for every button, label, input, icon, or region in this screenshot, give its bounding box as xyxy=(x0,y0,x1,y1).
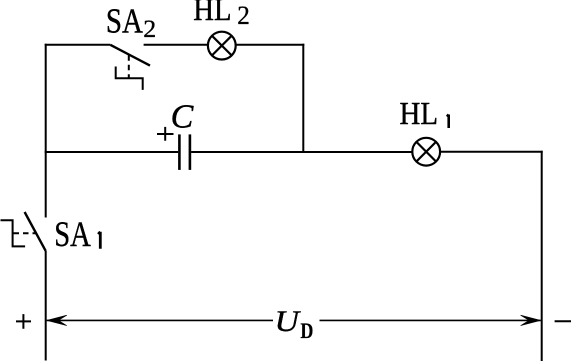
switch SA2 actuator bracket xyxy=(116,67,143,90)
svg-text:U: U xyxy=(275,305,302,338)
lamp HL1 cross xyxy=(416,142,436,162)
wire left vertical upper segment xyxy=(45,44,47,218)
dimension line right segment xyxy=(320,319,541,321)
capacitor C right plate xyxy=(189,134,192,170)
svg-text:2: 2 xyxy=(143,14,156,43)
wire SA2 right contact to HL2 xyxy=(144,44,208,46)
lamp HL2 cross xyxy=(212,36,232,56)
capacitor polarity plus sign xyxy=(157,127,174,141)
wire right vertical xyxy=(541,151,543,361)
wire middle rail left of capacitor xyxy=(45,151,179,153)
switch SA1 dashed link xyxy=(14,232,36,234)
wire vertical drop to middle rail xyxy=(302,44,304,152)
dimension line left segment xyxy=(47,319,273,321)
wire middle rail right of capacitor xyxy=(191,151,412,153)
plus terminal symbol xyxy=(16,314,31,329)
svg-text:HL: HL xyxy=(400,95,439,131)
switch SA2 dashed link xyxy=(128,55,130,78)
capacitor C left plate xyxy=(178,134,181,170)
wire left vertical lower segment xyxy=(45,251,47,361)
label SA1 subscript 1 xyxy=(98,232,100,249)
arrowhead right xyxy=(521,315,541,325)
switch SA2 blade xyxy=(110,45,150,66)
wire HL2 to top-right corner xyxy=(236,44,305,46)
svg-text:D: D xyxy=(300,318,313,343)
arrowhead left xyxy=(47,315,67,325)
lamp HL1 circle xyxy=(412,138,440,166)
svg-text:C: C xyxy=(171,98,194,135)
wire HL1 to right corner xyxy=(440,151,543,153)
svg-text:SA: SA xyxy=(54,214,91,254)
svg-text:SA: SA xyxy=(106,2,144,41)
lamp HL2 circle xyxy=(208,32,236,60)
switch SA1 actuator bracket xyxy=(1,220,26,246)
wire top horizontal to SA2 xyxy=(45,44,111,46)
svg-text:HL: HL xyxy=(193,0,231,27)
svg-text:2: 2 xyxy=(237,1,250,30)
minus terminal symbol xyxy=(555,320,571,322)
label HL1 subscript 1 xyxy=(447,115,449,129)
switch SA1 blade xyxy=(25,212,46,251)
